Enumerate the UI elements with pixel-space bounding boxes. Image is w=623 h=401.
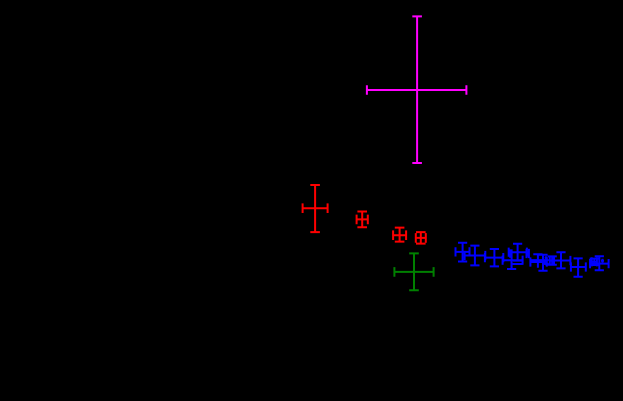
error-bar point B7 (blue series) [527, 249, 529, 258]
error-bar point B11 (blue series) [548, 256, 557, 265]
error-bar point B1 (blue series) [456, 243, 470, 262]
error-bar point B12 (blue series) [552, 252, 570, 268]
error-bar point R1 (red series) [303, 185, 328, 232]
error-bar point B6 (blue series) [509, 244, 527, 261]
error-bar point B16 (blue series) [601, 259, 604, 263]
error-bar point B4 (blue series) [503, 249, 523, 269]
error-bar point B5 (blue series) [512, 259, 523, 268]
error-bar point B14 (blue series) [590, 257, 599, 266]
error-bar point R4 (red series) [416, 232, 426, 244]
error-bar cluster overlap fill (blue series) [509, 249, 511, 257]
error-bar point B8 (blue series) [531, 254, 549, 268]
error-bar point M1 (magenta series) [367, 16, 467, 163]
error-bar point B10b (blue series) [544, 262, 549, 265]
error-bar point B13 (blue series) [571, 258, 586, 276]
error-bar point G1 (green series) [394, 253, 433, 290]
error-bar point B2 (blue series) [465, 246, 486, 266]
error-bar point B3 (blue series) [485, 249, 503, 266]
error-bar point R2 (red series) [357, 212, 368, 228]
error-bar point R3 (red series) [393, 228, 406, 242]
error-bar point B9 (blue series) [530, 255, 547, 271]
error-bar point B15 (blue series) [590, 256, 609, 270]
error-bar point B10 (blue series) [545, 256, 548, 259]
